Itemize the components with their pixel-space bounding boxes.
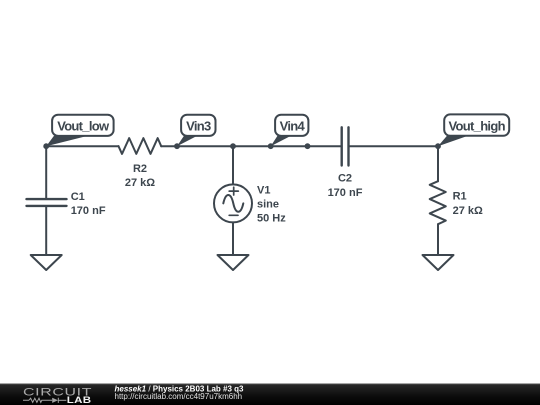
wire <box>45 146 47 199</box>
CircuitLab logo resistor-diode glyph <box>23 398 66 403</box>
node Vout_low anchor dot <box>43 143 49 149</box>
svg-text:LAB: LAB <box>67 396 92 405</box>
value label R1 <box>453 191 483 217</box>
svg-text:50 Hz: 50 Hz <box>257 212 286 224</box>
value label R2 <box>125 163 155 189</box>
svg-text:C1: C1 <box>71 191 85 203</box>
svg-text:Vin3: Vin3 <box>186 118 211 133</box>
wire <box>232 222 234 255</box>
capacitor C1 <box>27 199 67 206</box>
node Vout_high anchor dot <box>435 143 441 149</box>
value label V1 <box>257 185 286 225</box>
svg-text:170 nF: 170 nF <box>328 187 363 199</box>
wire <box>233 145 341 147</box>
wire <box>437 224 439 255</box>
wire <box>45 206 47 255</box>
svg-text:V1: V1 <box>257 185 270 197</box>
node label Vin3 <box>177 115 216 147</box>
wire <box>46 145 118 147</box>
ground <box>218 255 249 270</box>
value label C2 <box>328 173 363 200</box>
node label Vout_low <box>46 115 113 147</box>
wire <box>437 146 439 181</box>
svg-text:27 kΩ: 27 kΩ <box>453 205 483 217</box>
svg-text:170 nF: 170 nF <box>71 205 106 217</box>
wire <box>161 145 233 147</box>
svg-text:Vin4: Vin4 <box>280 118 306 133</box>
svg-text:27 kΩ: 27 kΩ <box>125 177 155 189</box>
svg-text:http://circuitlab.com/cc4t97u7: http://circuitlab.com/cc4t97u7km6hh <box>115 392 243 401</box>
svg-text:R1: R1 <box>453 191 467 203</box>
resistor R2 <box>119 138 162 154</box>
svg-text:sine: sine <box>257 199 279 211</box>
wire <box>232 146 234 184</box>
value label C1 <box>71 191 106 217</box>
node label Vin4 <box>271 115 309 147</box>
node Vin3 anchor dot <box>174 143 180 149</box>
voltage source V1 <box>214 184 252 222</box>
capacitor C2 <box>342 127 349 165</box>
ground <box>423 255 454 270</box>
svg-text:Vout_high: Vout_high <box>449 118 506 133</box>
resistor R1 <box>430 181 446 224</box>
footer bar <box>0 384 540 405</box>
ground <box>31 255 62 270</box>
node Vin4 anchor dot <box>268 143 274 149</box>
node label Vout_high <box>438 114 509 146</box>
node junction <box>305 143 311 149</box>
svg-text:R2: R2 <box>133 163 147 175</box>
svg-text:Vout_low: Vout_low <box>57 118 110 133</box>
wire <box>350 145 438 147</box>
svg-text:C2: C2 <box>338 173 352 185</box>
node junction V1 <box>230 143 236 149</box>
